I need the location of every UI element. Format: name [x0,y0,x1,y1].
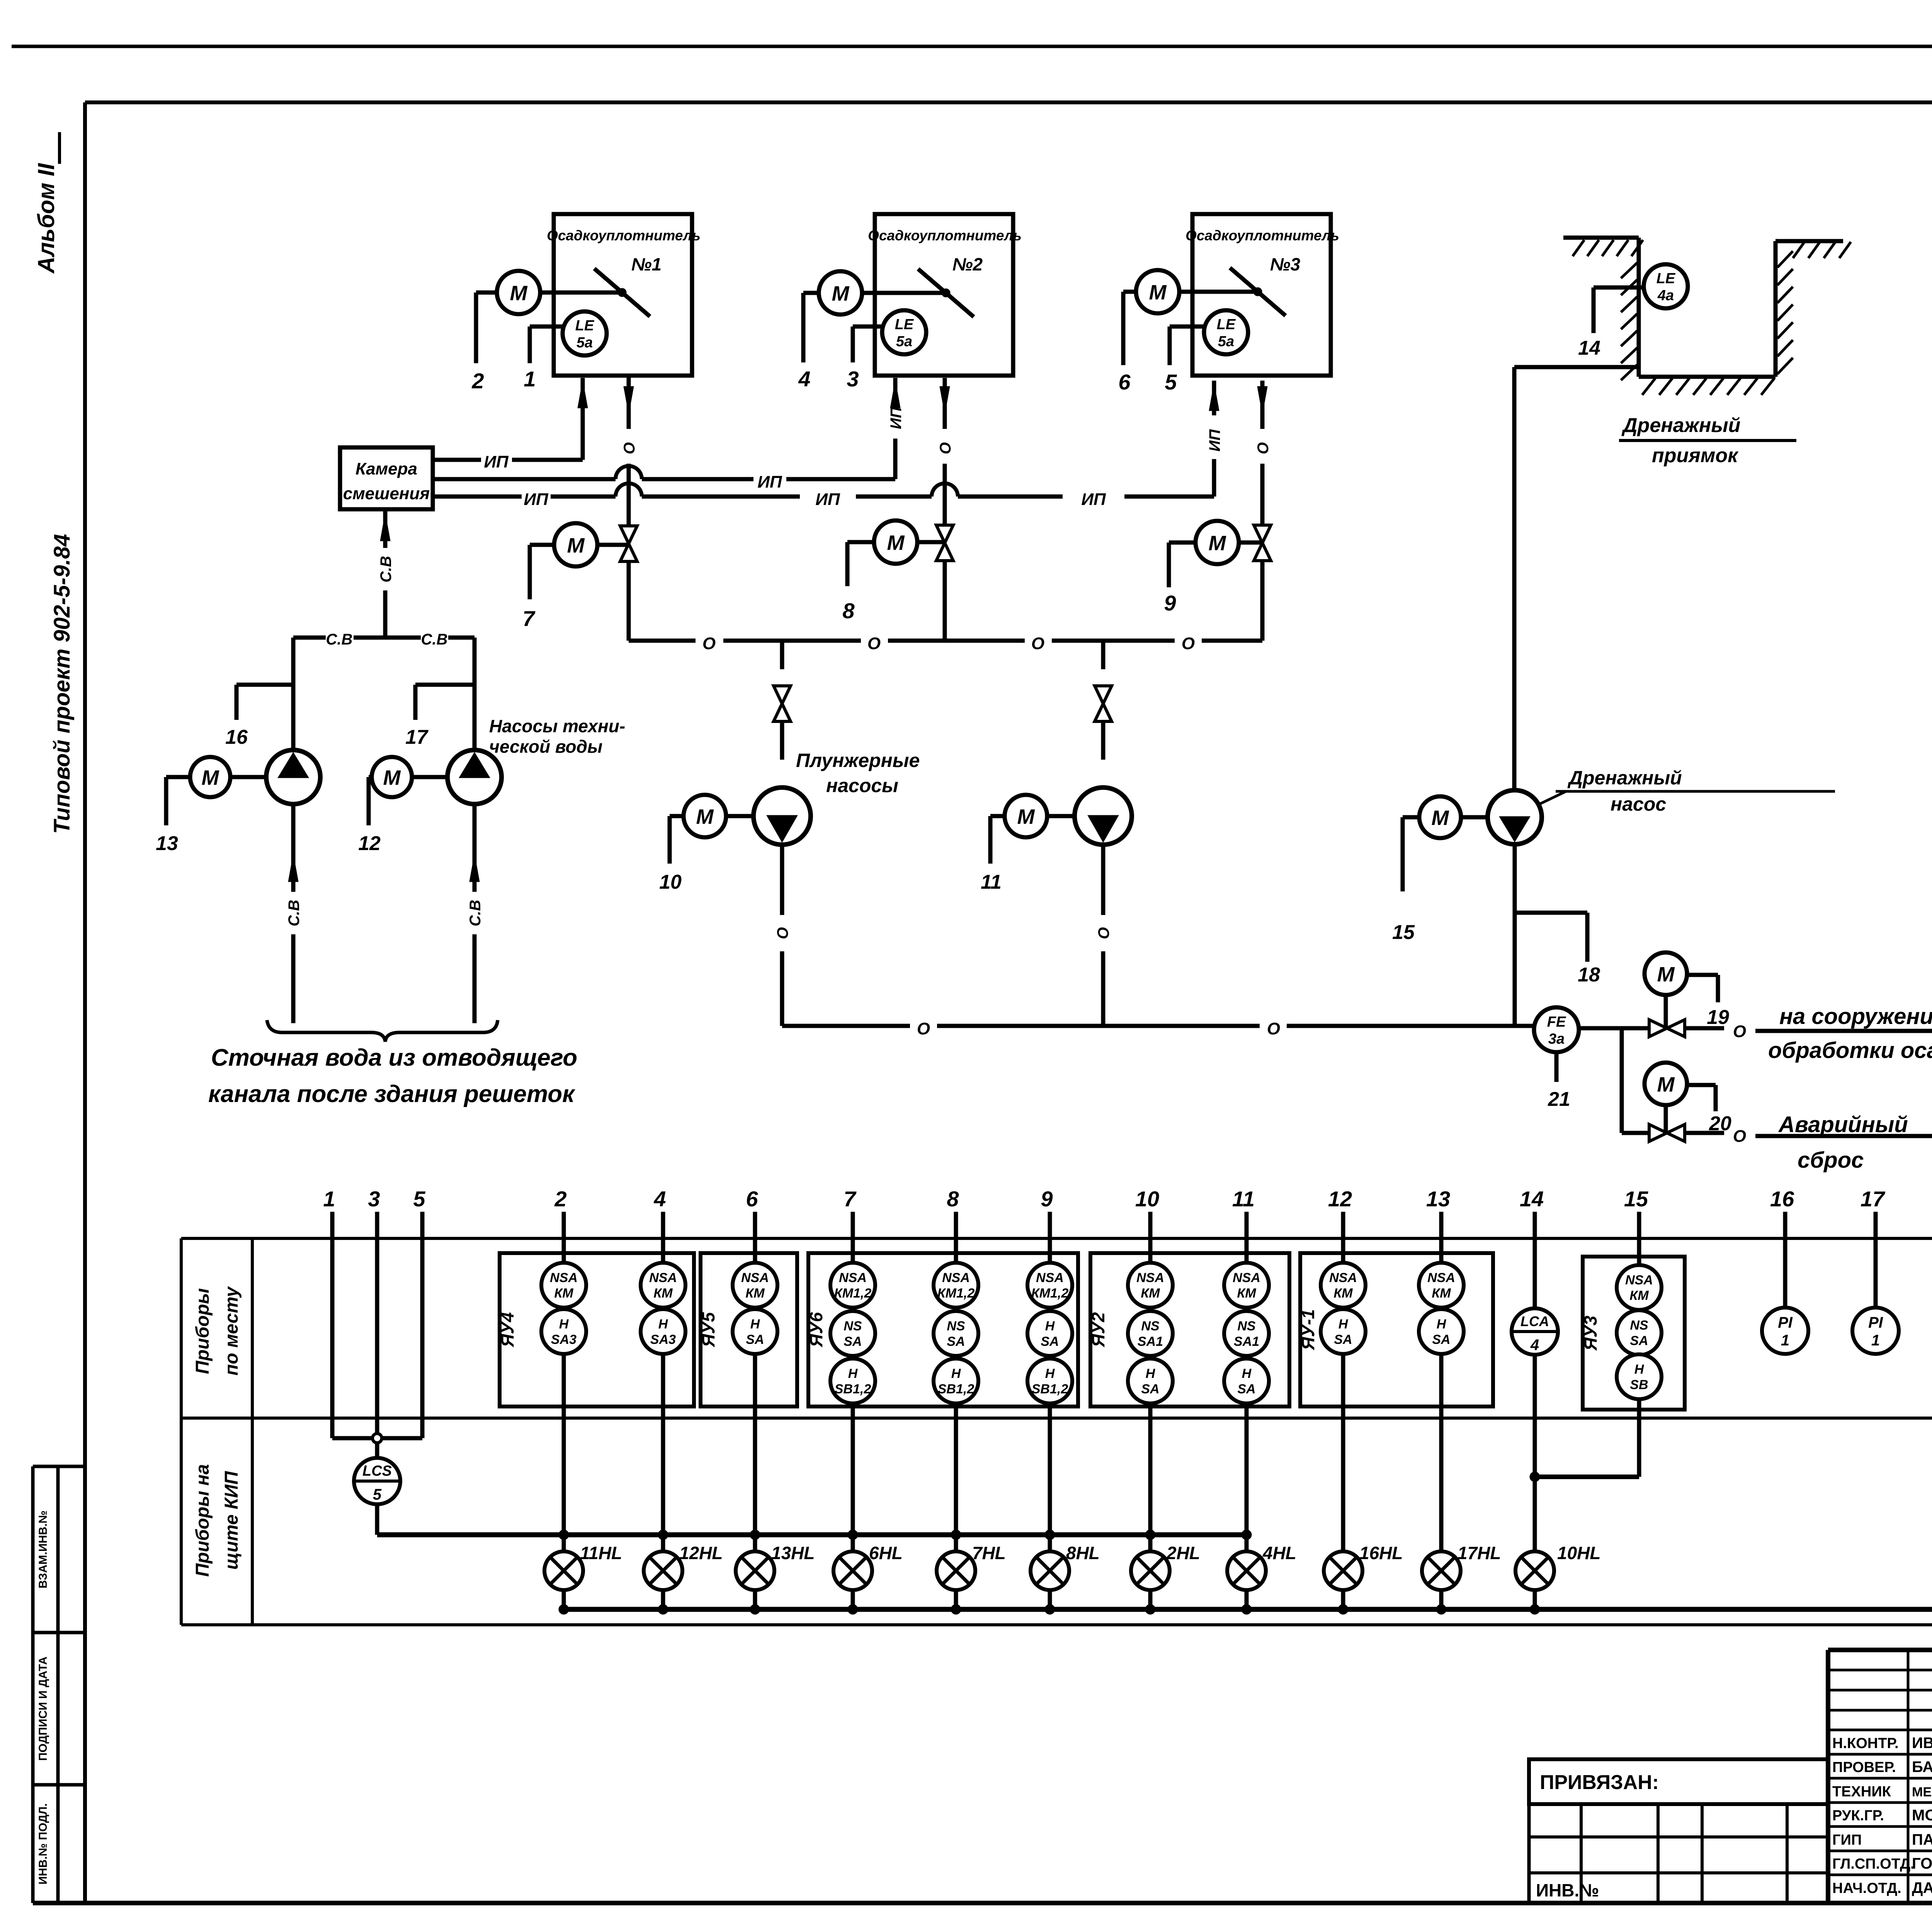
svg-text:LE: LE [895,316,914,333]
connector from YaU3 stack to line 14 [1530,1472,1639,1482]
plunger pump 2 branch valve [1095,641,1112,760]
svg-text:Н: Н [848,1366,858,1381]
svg-text:ПАВЛОВА: ПАВЛОВА [1912,1831,1932,1848]
svg-text:№3: №3 [1270,254,1301,274]
svg-text:LE: LE [575,318,595,334]
svg-text:М: М [383,766,401,789]
svg-text:Н: Н [1045,1366,1055,1381]
svg-text:ИВАНОВА: ИВАНОВА [1912,1735,1932,1752]
svg-text:Приборы на: Приборы на [192,1464,213,1577]
level controller alarm LCA 4 (line 14) [1512,1238,1558,1477]
svg-text:SA1: SA1 [1138,1334,1163,1349]
signal line number 16 [1770,1187,1794,1238]
svg-text:С.В: С.В [286,900,303,927]
signal line number 4 [653,1187,666,1238]
signal line number 15 [1624,1187,1648,1238]
sludge pulp line IP to tank 2 [433,439,895,492]
svg-text:Приборы: Приборы [192,1288,213,1374]
svg-text:2: 2 [471,369,484,393]
lower O discharge line to flow element [782,1019,1534,1038]
svg-text:ИП: ИП [484,452,509,471]
svg-text:5: 5 [413,1187,425,1211]
signal lamp 17HL [1422,1543,1501,1614]
motor valve on O pipe of tank 2 + lead 8 [842,520,953,641]
svg-text:LCA: LCA [1520,1313,1549,1329]
svg-text:ДАНИЛОВ: ДАНИЛОВ [1912,1879,1932,1896]
svg-text:О: О [1267,1019,1280,1038]
local panel box YaU5 [698,1253,797,1406]
brace under suction pipes [267,1020,498,1042]
suction pipe C.B of tech pump 2 [467,804,484,1023]
svg-text:О: О [621,442,638,454]
svg-text:SA: SA [947,1334,965,1349]
label Plunzhernye nasosy [796,750,920,796]
local instruments stack, line 12 (NSA KM / N SA) [1321,1238,1366,1551]
svg-text:ЯУ5: ЯУ5 [698,1311,718,1347]
svg-text:КМ: КМ [1237,1286,1256,1301]
svg-text:17: 17 [1861,1187,1886,1211]
signal line number 8 [947,1187,959,1238]
svg-text:15: 15 [1392,921,1415,944]
thickener tank box N3 [1185,214,1339,376]
svg-text:1: 1 [1871,1332,1880,1349]
motor M of thickener 3 + lead 6 [1118,270,1258,394]
outlet line to sludge treatment facilities [1685,1004,1932,1063]
motor M of plunger pump 2 + lead 11 [981,795,1075,893]
svg-text:NS: NS [844,1319,862,1333]
svg-text:SA: SA [1141,1382,1159,1396]
svg-text:16: 16 [225,726,248,748]
signal line number 7 [844,1187,857,1238]
svg-text:ИП: ИП [757,473,782,492]
svg-text:7: 7 [844,1187,857,1211]
svg-text:Н: Н [658,1317,668,1332]
svg-text:17: 17 [405,726,429,748]
svg-text:Н: Н [951,1366,961,1381]
svg-text:О: О [867,634,881,653]
svg-text:ВЗАМ.ИНВ.№: ВЗАМ.ИНВ.№ [37,1510,49,1588]
svg-text:обработки осадка: обработки осадка [1768,1038,1932,1063]
svg-text:PI: PI [1778,1314,1793,1331]
signal line number 12 [1328,1187,1352,1238]
svg-text:М: М [832,282,850,305]
motor M of drainage pump + lead 15 [1392,796,1488,944]
signal lamp 10HL [1515,1477,1600,1614]
technical water pump 2 [447,750,502,804]
motor valve on O pipe of tank 3 + lead 9 [1164,521,1271,641]
svg-text:4: 4 [798,367,810,391]
svg-text:SA3: SA3 [551,1332,577,1347]
sheet top edge line [12,45,1932,48]
emergency discharge outlet line [1685,1112,1932,1173]
drainage pump [1488,790,1542,844]
left margin stamp strip [33,1466,85,1903]
svg-text:КМ1,2: КМ1,2 [1031,1286,1069,1301]
svg-text:М: М [1017,805,1035,828]
svg-text:Н: Н [1634,1362,1645,1377]
svg-text:М: М [1657,963,1675,986]
label Drenazhnyi nasos with leader [1539,767,1835,815]
svg-text:NSA: NSA [741,1270,769,1285]
motor valve 20 (emergency discharge) [1645,1063,1731,1141]
svg-text:Н: Н [1146,1366,1156,1381]
local instruments stack, line 2 (NSA KM / N SA3) [541,1238,586,1551]
signal line number 10 [1135,1187,1159,1238]
svg-text:SB1,2: SB1,2 [1032,1382,1068,1396]
svg-text:ПОДПИСИ И ДАТА: ПОДПИСИ И ДАТА [37,1656,49,1761]
svg-text:19: 19 [1707,1006,1729,1029]
svg-text:канала после здания решеток: канала после здания решеток [208,1081,575,1107]
plunger pump 2 [1075,787,1132,845]
svg-text:NSA: NSA [1036,1270,1064,1285]
sludge pulp line IP to tank 1 [433,410,583,471]
svg-text:ПРИВЯЗАН:: ПРИВЯЗАН: [1540,1771,1659,1794]
compacted sludge O outlet pipe, tank 1 [621,376,638,526]
svg-text:КМ: КМ [554,1286,573,1301]
thickener tank box N2 [868,214,1022,376]
svg-text:NSA: NSA [1625,1273,1653,1287]
svg-text:12: 12 [358,832,381,855]
svg-text:SA: SA [1630,1333,1648,1348]
svg-text:С.В: С.В [378,556,395,583]
sludge pulp line IP to tank 3 [433,459,1214,509]
svg-text:Дренажный: Дренажный [1567,767,1682,789]
svg-text:М: М [1209,532,1226,555]
svg-text:ИНВ.№: ИНВ.№ [1536,1880,1599,1900]
svg-text:11: 11 [981,871,1002,893]
svg-text:14: 14 [1578,337,1600,359]
svg-text:Осадкоуплотнитель: Осадкоуплотнитель [868,228,1022,243]
svg-text:SA: SA [1334,1332,1352,1347]
svg-text:М: М [1657,1073,1675,1096]
local instruments stack, line 15 (NSA KM / NS SA / N SB) [1617,1238,1662,1477]
svg-text:О: О [1255,442,1272,454]
signal lamp 7HL [937,1543,1006,1614]
svg-text:PI: PI [1868,1314,1883,1331]
svg-text:О: О [1733,1127,1746,1146]
discharge pipe O of plunger pump 2 [1095,845,1112,1026]
svg-text:SA3: SA3 [650,1332,676,1347]
thickener tank box N1 [547,214,701,376]
svg-text:ЯУ-1: ЯУ-1 [1298,1309,1318,1350]
svg-text:FE: FE [1547,1014,1566,1030]
local instruments stack, line 11 (NSA KM / NS SA1 / N SA) [1224,1238,1269,1551]
svg-text:Дренажный: Дренажный [1621,414,1740,437]
signal line number 9 [1041,1187,1053,1238]
svg-text:приямок: приямок [1652,444,1739,467]
level sensor LE 4a in pit + lead 14 [1578,264,1688,359]
svg-text:М: М [887,531,905,554]
svg-text:Н.КОНТР.: Н.КОНТР. [1832,1735,1899,1752]
svg-text:4: 4 [1530,1337,1539,1354]
svg-text:SB1,2: SB1,2 [938,1382,975,1396]
signal line number 6 [746,1187,758,1238]
svg-text:NSA: NSA [1427,1270,1455,1285]
svg-text:КМ: КМ [1141,1286,1160,1301]
svg-text:КМ: КМ [1629,1288,1649,1303]
scraper drive line, tank 2 [918,269,974,317]
motor valve on O pipe of tank 1 + lead 7 [522,523,637,641]
signal line number 14 [1520,1187,1544,1238]
local instruments stack, line 13 (NSA KM / N SA) [1419,1238,1464,1551]
svg-text:ческой воды: ческой воды [489,736,602,757]
svg-text:ГЛ.СП.ОТД.: ГЛ.СП.ОТД. [1832,1856,1915,1872]
svg-text:Осадкоуплотнитель: Осадкоуплотнитель [547,228,701,243]
title block outer [1828,1650,1932,1903]
svg-text:сброс: сброс [1798,1148,1864,1173]
svg-text:5: 5 [1165,370,1177,394]
svg-text:Насосы техни-: Насосы техни- [489,716,625,736]
svg-text:18: 18 [1578,964,1600,986]
svg-text:SA1: SA1 [1234,1334,1259,1349]
signal line number 2 [554,1187,566,1238]
IP inlet arrow, tank 1 [578,378,588,410]
svg-text:МЕНОВЩИКОВА: МЕНОВЩИКОВА [1912,1785,1932,1799]
svg-text:13HL: 13HL [771,1543,815,1563]
technical water pump 1 [266,750,320,804]
signal lamp 12HL [644,1543,723,1614]
svg-text:5a: 5a [896,333,912,350]
svg-text:М: М [510,282,528,305]
svg-text:Н: Н [1338,1317,1349,1332]
sound alarm bus to arrow [564,1585,1932,1640]
svg-text:10: 10 [659,871,682,893]
svg-text:4a: 4a [1657,287,1674,304]
svg-text:Сточная вода из отводящего: Сточная вода из отводящего [211,1044,577,1071]
svg-text:М: М [1149,281,1167,304]
margin text Tipovoy proekt 902-5-9.84 [49,534,75,834]
svg-text:КМ: КМ [745,1286,765,1301]
svg-text:NSA: NSA [1329,1270,1357,1285]
svg-text:ИНВ.№ ПОДЛ.: ИНВ.№ ПОДЛ. [37,1803,49,1884]
signal lines 1,3,5 down to junction [332,1238,422,1443]
motor M of tech pump 1 + lead 13 [156,757,266,855]
svg-text:ИП: ИП [1081,490,1106,509]
svg-text:2HL: 2HL [1166,1543,1200,1563]
signal lamp 11HL [544,1543,622,1614]
svg-text:SB: SB [1630,1378,1648,1392]
svg-text:4HL: 4HL [1262,1543,1296,1563]
scraper drive line, tank 1 [594,269,650,316]
svg-text:12: 12 [1328,1187,1352,1211]
wire lead 16 (pump 1 head tap) [225,638,293,750]
svg-text:1: 1 [524,367,536,391]
IP inlet arrow + label, tank 2 [888,378,905,429]
signal lamp 6HL [833,1543,903,1614]
svg-text:№1: №1 [631,254,662,274]
svg-text:9: 9 [1164,591,1176,615]
svg-text:LCS: LCS [362,1463,392,1479]
signal line number 11 [1232,1187,1255,1238]
svg-text:NSA: NSA [550,1270,578,1285]
svg-text:О: О [937,442,954,454]
svg-text:9: 9 [1041,1187,1053,1211]
svg-text:LE: LE [1217,316,1236,333]
svg-text:Н: Н [1437,1317,1447,1332]
level sensor LE 5a of thickener 1 + lead 1 [524,311,607,391]
signal line number 13 [1426,1187,1450,1238]
svg-text:Плунжерные: Плунжерные [796,750,920,771]
signal line number 17 [1861,1187,1886,1238]
privyazan table [1529,1759,1828,1903]
svg-text:8HL: 8HL [1066,1543,1100,1563]
svg-text:SA: SA [844,1334,862,1349]
svg-text:С.В: С.В [467,900,484,927]
svg-text:Аварийный: Аварийный [1778,1112,1908,1137]
svg-text:О: О [1182,634,1195,653]
svg-text:С.В: С.В [421,631,448,648]
svg-text:Камера: Камера [355,459,417,478]
row label: Pribory po mestu [192,1286,242,1376]
svg-text:Н: Н [559,1317,569,1332]
svg-text:№2: №2 [952,254,983,274]
signal lamp 8HL [1031,1543,1100,1614]
discharge pipe O of plunger pump 1 [774,845,791,1026]
motor valve 19 (to sludge treatment) [1645,952,1729,1037]
svg-text:LE: LE [1656,270,1676,287]
svg-text:насос: насос [1611,793,1666,815]
label Drenazhnyi priyamok [1619,414,1796,467]
svg-text:ТЕХНИК: ТЕХНИК [1832,1784,1891,1800]
svg-text:М: М [202,766,219,789]
svg-text:БАКШЕЕВА: БАКШЕЕВА [1912,1759,1932,1776]
svg-text:5a: 5a [1218,333,1234,350]
compacted sludge O outlet pipe, tank 3 [1255,381,1272,526]
svg-text:О: О [1031,634,1044,653]
svg-text:НАЧ.ОТД.: НАЧ.ОТД. [1832,1880,1901,1896]
svg-text:Осадкоуплотнитель: Осадкоуплотнитель [1185,228,1339,243]
svg-text:3: 3 [368,1187,380,1211]
compacted sludge O outlet pipe, tank 2 [937,378,954,525]
plunger pump 1 branch valve [774,641,791,760]
svg-text:Н: Н [1242,1366,1252,1381]
svg-text:13: 13 [1426,1187,1450,1211]
signal line number 5 [413,1187,425,1238]
svg-text:6HL: 6HL [869,1543,903,1563]
flow element FE 3a + lead 21 [1534,1007,1579,1111]
IP inlet arrow + label, tank 3 [1206,381,1223,452]
svg-text:3a: 3a [1548,1031,1565,1047]
motor M of plunger pump 1 + lead 10 [659,795,753,893]
svg-text:насосы: насосы [826,775,898,796]
pressure gauge PI 1 (line 17) [1852,1238,1899,1354]
svg-text:10: 10 [1135,1187,1159,1211]
branch pipe to emergency valve [1622,1028,1649,1133]
svg-text:16: 16 [1770,1187,1794,1211]
local panel box YaU6 [806,1253,1078,1406]
svg-text:14: 14 [1520,1187,1544,1211]
scraper drive line, tank 3 [1230,268,1286,316]
wire lead 17 (pump 2 head tap) [405,638,474,749]
svg-text:1: 1 [1781,1332,1789,1349]
svg-text:7: 7 [522,606,536,631]
label Nasosy tekhnicheskoy vody [489,716,625,757]
svg-text:МОСЕЕНКО: МОСЕЕНКО [1912,1807,1932,1824]
svg-text:NS: NS [1141,1319,1160,1333]
drainage pit hatching [1573,240,1851,395]
svg-text:по месту: по месту [221,1286,242,1376]
svg-text:13: 13 [156,832,178,855]
svg-text:О: О [702,634,716,653]
local instruments stack, line 4 (NSA KM / N SA3) [641,1238,685,1551]
svg-text:NSA: NSA [1136,1270,1164,1285]
svg-text:О: О [1733,1022,1746,1041]
signal lamp 13HL [736,1543,815,1614]
svg-text:10HL: 10HL [1557,1543,1600,1563]
svg-text:SA: SA [746,1332,764,1347]
signal lamp 16HL [1324,1543,1403,1614]
svg-text:6: 6 [1118,370,1131,394]
svg-text:КМ1,2: КМ1,2 [937,1286,975,1301]
svg-text:11HL: 11HL [580,1543,622,1563]
svg-text:М: М [567,534,585,557]
signal line number 3 [368,1187,380,1238]
title block small rows [1828,1650,1932,1903]
drainage pump discharge pipe [1513,844,1517,1026]
svg-text:1: 1 [323,1187,335,1211]
title block names column [1832,1735,1932,1906]
svg-text:О: О [774,927,791,939]
svg-text:ГИП: ГИП [1832,1832,1862,1848]
svg-text:SB1,2: SB1,2 [835,1382,871,1396]
level control switch LCS 5 [354,1443,400,1504]
row label: Pribory na shchite KIP [192,1464,242,1577]
svg-text:SA: SA [1041,1334,1059,1349]
svg-text:О: О [917,1019,930,1038]
local instruments stack, line 9 (NSA KM1,2 / N SA / N SB1,2) [1027,1238,1072,1551]
svg-text:2: 2 [554,1187,566,1211]
plunger pump 1 [753,787,811,845]
svg-text:ИП: ИП [815,490,840,509]
motor M of tech pump 2 + lead 12 [358,757,447,855]
pressure gauge PI 1 (line 16) [1762,1238,1808,1354]
instrument table frame [181,1238,1932,1625]
svg-text:NS: NS [1237,1319,1256,1333]
svg-text:7HL: 7HL [972,1543,1006,1563]
motor M of thickener 2 + lead 4 [798,271,946,391]
wire lead 18 (discharge pressure tap) [1515,913,1600,986]
svg-text:С.В: С.В [326,631,353,648]
svg-text:щите КИП: щите КИП [221,1471,242,1570]
level sensor LE 5a of thickener 3 + lead 5 [1165,310,1248,394]
svg-text:NSA: NSA [839,1270,867,1285]
svg-text:на сооружения: на сооружения [1779,1004,1932,1029]
svg-text:SA: SA [1237,1382,1255,1396]
svg-text:11: 11 [1232,1187,1255,1211]
svg-text:ПРОВЕР.: ПРОВЕР. [1832,1759,1896,1776]
O collecting manifold [629,634,1262,653]
svg-text:ЯУ2: ЯУ2 [1088,1312,1108,1347]
svg-text:NS: NS [947,1319,965,1333]
signal line number 1 [323,1187,335,1238]
svg-text:NS: NS [1630,1318,1648,1333]
svg-text:17HL: 17HL [1458,1543,1501,1563]
svg-text:21: 21 [1548,1088,1570,1111]
svg-text:КМ: КМ [653,1286,673,1301]
local panel box YaU4 [497,1253,694,1406]
svg-text:ИП: ИП [524,490,549,509]
local instruments stack, line 10 (NSA KM / NS SA1 / N SA) [1128,1238,1173,1551]
mixing chamber box (Kamera smesheniya) [340,447,433,509]
svg-text:4: 4 [653,1187,666,1211]
svg-text:8: 8 [947,1187,959,1211]
suction pipe C.B of tech pump 1 [286,804,303,1023]
signal lamp 4HL [1227,1543,1296,1614]
motor M of thickener 1 + wires to scraper and lead 2 [471,271,622,393]
svg-text:КМ: КМ [1333,1286,1353,1301]
signal lamp 2HL [1131,1543,1200,1614]
local instruments stack, line 7 (NSA KM1,2 / NS SA / N SB1,2) [830,1238,875,1551]
